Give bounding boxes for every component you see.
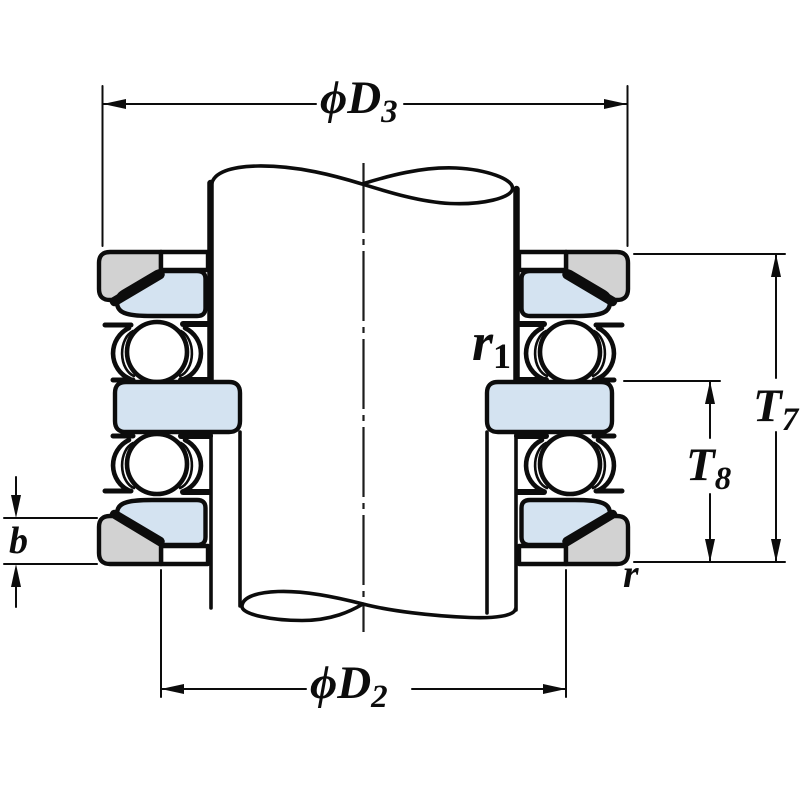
shaft right edge (lower section) [514, 431, 518, 610]
shaft washer middle-left (blue) [115, 382, 240, 432]
housing washer bottom-right (blue) [522, 500, 613, 545]
ball B1 [127, 322, 187, 382]
label r [623, 551, 639, 596]
dimension phi-D2 line with arrows [161, 684, 566, 694]
dimension T8 extension line top [624, 380, 720, 382]
shaft narrow-step right edge [485, 432, 489, 613]
housing washer top-left white strip [161, 252, 208, 270]
seating ring top-left (gray) [99, 252, 161, 300]
housing washer top-right white strip [519, 252, 566, 270]
shaft left edge (lower section) [209, 431, 213, 608]
dimension b extension line top [4, 517, 97, 519]
ball B2 [127, 434, 187, 494]
shaft washer middle-right (blue) [487, 382, 612, 432]
label T8 [686, 439, 731, 497]
housing washer bottom-left white strip [161, 546, 208, 564]
shaft bottom break line [242, 591, 516, 620]
ball B3 [540, 322, 600, 382]
label b [9, 520, 28, 562]
label phi-D3 [320, 72, 398, 130]
dimension T7 line with arrows [771, 254, 781, 562]
label r1 [472, 312, 511, 376]
shaft narrow-step left edge [238, 432, 242, 606]
label phi-D2 [310, 657, 388, 715]
dimension b extension line bottom [4, 563, 97, 565]
cage arcs ball B2 [113, 440, 201, 491]
cage arcs ball B3 [526, 328, 614, 379]
seating ring bottom-left (gray) [99, 516, 161, 564]
cage arcs ball B4 [526, 440, 614, 491]
raceway shoulder bars around ball B4 [517, 436, 622, 492]
dimension phi-D3 line with arrows [103, 99, 627, 109]
shaft top break line [212, 166, 513, 204]
raceway shoulder bars around ball B2 [105, 436, 210, 492]
seating ring top-right (gray) [566, 252, 628, 300]
svg-text:b: b [9, 520, 28, 562]
dimension phi-D2 extension line left [160, 570, 162, 697]
shaft right edge (upper section) [513, 189, 520, 383]
cage arcs ball B1 [113, 328, 201, 379]
dimension phi-D2 extension line right [565, 570, 567, 697]
svg-text:r: r [623, 551, 639, 596]
housing washer top-right (blue) [522, 271, 613, 316]
dimension phi-D3 extension line right [627, 86, 629, 246]
housing washer bottom-left (blue) [115, 500, 206, 545]
housing washer top-left (blue) [115, 271, 206, 316]
seating ring bottom-right (gray) [566, 516, 628, 564]
label T7 [753, 380, 800, 438]
shaft left edge (upper section) [207, 183, 214, 383]
center line (shaft axis) [362, 163, 364, 632]
dimension b arrows [11, 477, 21, 607]
ball B4 [540, 434, 600, 494]
dimension T7 extension line top [634, 253, 785, 255]
housing washer bottom-right white strip [519, 546, 566, 564]
dimension phi-D3 extension line left [102, 86, 104, 246]
raceway shoulder bars around ball B3 [517, 324, 622, 380]
dimension T8 line with arrows [705, 381, 715, 562]
shared extension line bottom (T7/T8) [634, 561, 785, 563]
raceway shoulder bars around ball B1 [105, 324, 210, 380]
